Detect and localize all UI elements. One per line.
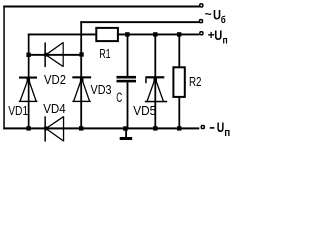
svg-text:U: U	[214, 28, 222, 43]
diode VD1 (vertical, cathode bar up)	[19, 77, 38, 103]
svg-text:п: п	[223, 36, 228, 47]
wire: vertical column x28 (VD1 column)	[28, 34, 30, 129]
svg-text:VD2: VD2	[44, 72, 66, 87]
node: bottom rail / VD3 junction	[79, 126, 83, 130]
svg-text:VD3: VD3	[91, 82, 112, 97]
wire: R2 upper lead	[178, 34, 180, 67]
capacitor C	[117, 76, 137, 83]
svg-text:б: б	[221, 14, 226, 26]
node: junction VD1 column / VD2 wire	[26, 53, 30, 57]
diode VD3 (vertical, cathode bar up)	[72, 76, 91, 102]
node: junction VD3 column / VD2 wire	[79, 52, 83, 56]
terminal: -Un output	[201, 126, 204, 129]
node: bottom rail / VD5 junction	[153, 126, 157, 130]
node: bottom rail / R2 junction	[177, 126, 181, 130]
svg-text:R2: R2	[189, 74, 202, 89]
terminal: lower ~U input	[200, 20, 203, 23]
node: +U rail / C junction	[125, 32, 129, 36]
label -Un	[210, 119, 231, 139]
svg-text:~: ~	[205, 7, 212, 21]
wire: vertical column x81 (VD2/VD3 junction column)	[80, 21, 82, 129]
ground (chassis) symbol	[120, 130, 133, 141]
node: bottom rail / C + ground junction	[123, 126, 128, 130]
wire: +U rail right segment (R1 to +Un terminal)	[117, 34, 199, 36]
resistor R2	[173, 67, 184, 97]
svg-text:U: U	[217, 119, 225, 135]
label +Un	[208, 28, 228, 47]
wire: zener VD5 column	[154, 34, 156, 129]
wire: R2 lower lead	[178, 97, 180, 129]
svg-text:R1: R1	[99, 46, 111, 61]
wire: +U rail left segment (corner to R1)	[28, 34, 97, 36]
svg-text:VD4: VD4	[43, 101, 65, 116]
diode VD4 (horizontal in bottom rail, cathode bar left)	[44, 116, 64, 141]
svg-text:U: U	[213, 7, 221, 22]
svg-text:VD5: VD5	[133, 103, 156, 118]
node: +U rail / VD5 junction	[153, 32, 157, 36]
wire: capacitor C lower lead	[127, 82, 129, 128]
terminal: upper ~U input	[200, 4, 203, 7]
wire: bottom rail (AC leg / -Un rail with VD4 in series)	[3, 127, 199, 129]
resistor R1	[96, 28, 118, 41]
node: bottom rail / VD1 junction	[26, 126, 30, 130]
wire: capacitor C upper lead	[127, 34, 129, 77]
label ~U input	[205, 7, 226, 26]
svg-text:п: п	[224, 127, 230, 139]
zener diode VD5	[145, 76, 167, 102]
diode VD2 (horizontal, cathode bar left)	[44, 42, 64, 67]
svg-text:C: C	[116, 90, 122, 105]
wire: left border drop (AC leg)	[3, 6, 5, 130]
terminal: +Un output	[200, 32, 203, 35]
wire: VD2 bridge wire (VD1 column to VD3 column)	[28, 54, 82, 56]
svg-text:VD1: VD1	[8, 103, 28, 118]
wire: top AC rail (upper ~ terminal to left border)	[3, 6, 199, 8]
wire: second AC rail (lower ~ terminal to corner)	[80, 21, 199, 23]
node: +U rail / R2 junction	[177, 32, 181, 36]
